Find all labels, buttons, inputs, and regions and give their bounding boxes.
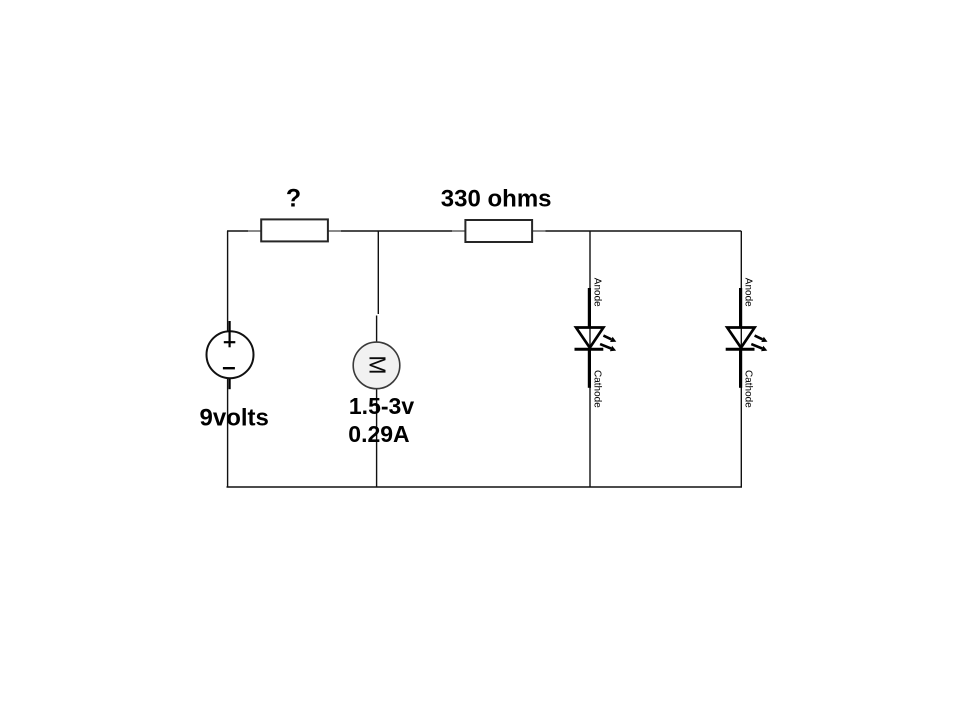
svg-text:Anode: Anode xyxy=(743,278,754,307)
wire stub gray right of R1 xyxy=(328,230,341,232)
LED D1 cathode lead xyxy=(588,349,591,388)
wire bottom bus xyxy=(227,486,743,488)
wire LED2 branch xyxy=(740,231,742,487)
label 330 ohms for R2 xyxy=(441,186,552,213)
wire stub gray left of R1 xyxy=(248,230,261,232)
svg-text:?: ? xyxy=(286,185,301,213)
resistor R1 (unknown value) xyxy=(261,219,328,241)
battery minus sign bar xyxy=(223,367,235,369)
wire LED1 branch xyxy=(589,231,591,487)
svg-text:Anode: Anode xyxy=(591,278,602,307)
label Anode for D1 (rotated) xyxy=(591,278,602,307)
label 1.5-3v xyxy=(349,393,414,419)
LED D2 light arrow 2 xyxy=(751,344,767,351)
LED D2 light arrow 1 xyxy=(755,336,768,342)
label Cathode for D1 (rotated) xyxy=(591,370,602,408)
LED D1 cathode bar xyxy=(575,348,604,351)
motor M1 circle xyxy=(353,342,400,389)
wire stub gray right of R2 xyxy=(533,230,546,232)
wire left branch xyxy=(227,231,229,487)
wire motor branch lower xyxy=(376,316,378,488)
label Cathode for D2 (rotated) xyxy=(743,370,754,408)
LED D2 cathode lead xyxy=(739,349,742,388)
LED D1 light arrow 2 xyxy=(600,344,616,351)
label 0.29A xyxy=(348,421,409,447)
svg-text:1.5-3v: 1.5-3v xyxy=(349,393,414,419)
svg-text:9volts: 9volts xyxy=(200,405,269,432)
battery source B1 circle xyxy=(207,331,254,378)
LED D1 light arrow 1 xyxy=(603,336,616,342)
LED D1 anode lead xyxy=(588,288,591,327)
svg-text:330 ohms: 330 ohms xyxy=(441,186,552,213)
wire motor branch upper xyxy=(377,231,379,314)
svg-text:M: M xyxy=(364,355,390,374)
resistor R2 330 ohms xyxy=(465,220,532,242)
wire stub gray left of R2 xyxy=(452,230,465,232)
LED D2 cathode bar xyxy=(726,348,755,351)
svg-text:0.29A: 0.29A xyxy=(348,421,409,447)
battery bottom terminal tick xyxy=(229,379,231,389)
svg-text:Cathode: Cathode xyxy=(591,370,602,408)
battery plus sign bar xyxy=(224,341,236,343)
LED D2 anode lead xyxy=(739,288,742,327)
wire top bus xyxy=(227,230,741,232)
LED D2 triangle xyxy=(727,328,754,348)
label 9volts xyxy=(200,405,269,432)
svg-text:Cathode: Cathode xyxy=(743,370,754,408)
motor letter M (rotated) xyxy=(364,355,390,374)
label Anode for D2 (rotated) xyxy=(743,278,754,307)
battery plus terminal tick xyxy=(229,321,231,347)
label ? for R1 xyxy=(286,185,301,213)
LED D1 triangle xyxy=(576,328,603,348)
